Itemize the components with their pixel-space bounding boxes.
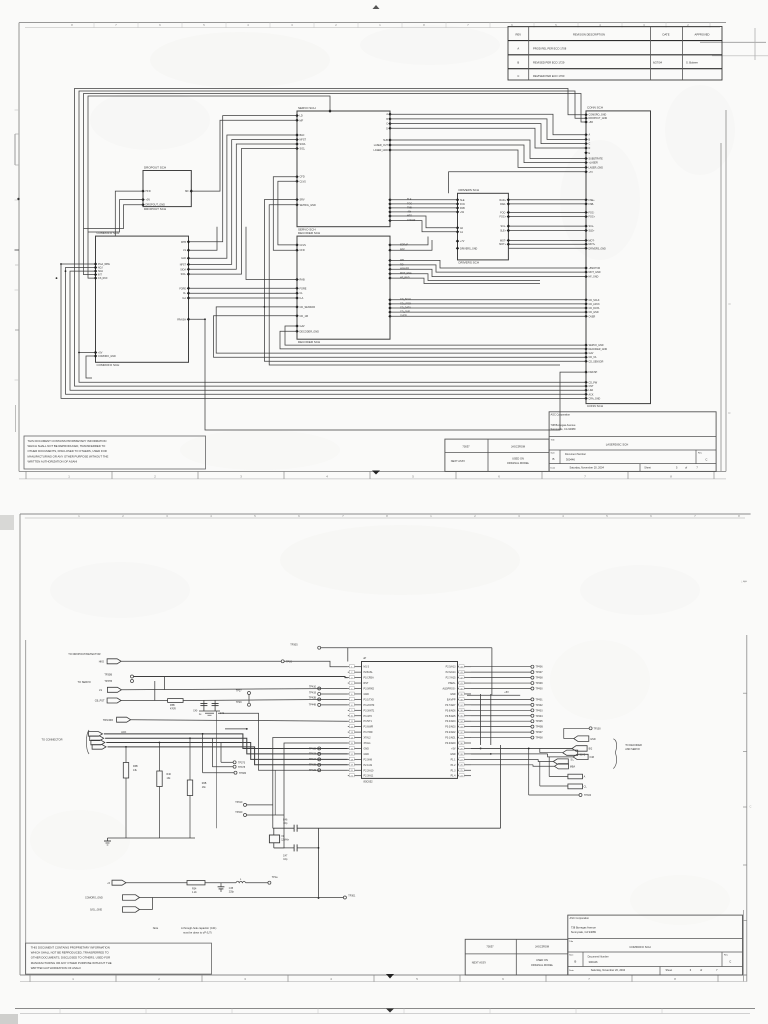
svg-text:LASER_GND: LASER_GND xyxy=(374,149,389,152)
svg-text:C: C xyxy=(750,805,752,809)
svg-text:THIS DOCUMENT CONTAINS PROPRIE: THIS DOCUMENT CONTAINS PROPRIETARY INFOR… xyxy=(28,439,107,443)
svg-text:DROPOUT_GND: DROPOUT_GND xyxy=(589,117,608,120)
svg-text:CS_RCF: CS_RCF xyxy=(98,277,108,280)
svg-text:TP40B: TP40B xyxy=(536,726,544,729)
svg-text:GAV: GAV xyxy=(300,325,305,328)
center marker bottom page 1 xyxy=(372,471,380,475)
wire XTAL2 net xyxy=(273,738,348,829)
svg-text:1u: 1u xyxy=(199,714,202,716)
svg-text:R40: R40 xyxy=(167,773,172,776)
svg-text:D: D xyxy=(589,147,591,150)
svg-text:+5V: +5V xyxy=(451,747,456,750)
svg-text:A through-hole capacitor (C41): A through-hole capacitor (C41) xyxy=(181,926,216,930)
wire HKD to uP xyxy=(121,661,348,666)
svg-text:4: 4 xyxy=(562,514,564,518)
sheet symbol SERVO SCH (U-servo) xyxy=(295,106,415,232)
svg-text:1.2k: 1.2k xyxy=(192,891,197,894)
test point TP305 xyxy=(290,643,320,649)
svg-text:3: 3 xyxy=(291,23,293,27)
svg-text:DECODER SCH: DECODER SCH xyxy=(298,340,320,344)
svg-text:GND: GND xyxy=(364,693,370,696)
svg-text:XTAL1: XTAL1 xyxy=(364,742,372,745)
svg-text:5: 5 xyxy=(606,514,608,518)
resistor R5B xyxy=(168,699,184,711)
svg-text:ORIGINAL MODEL: ORIGINAL MODEL xyxy=(507,461,530,465)
svg-text:3: 3 xyxy=(518,514,520,518)
svg-text:C: C xyxy=(386,123,388,126)
svg-text:FRA/SH: FRA/SH xyxy=(177,318,186,321)
svg-text:P1/CRSA: P1/CRSA xyxy=(364,677,375,680)
svg-text:FORE: FORE xyxy=(179,287,186,290)
scan artifact left edge page 1 xyxy=(14,134,16,165)
svg-text:MOT-: MOT- xyxy=(500,239,506,242)
connector flag LS xyxy=(99,687,121,692)
svg-text:CLVS: CLVS xyxy=(300,180,307,183)
test point TP44B xyxy=(309,703,348,706)
svg-text:GLD: GLD xyxy=(181,257,186,260)
svg-text:DROPOUT SCH: DROPOUT SCH xyxy=(144,207,166,211)
svg-text:P3.1/TXD: P3.1/TXD xyxy=(364,698,375,701)
svg-text:SUL-: SUL- xyxy=(589,225,595,228)
svg-text:2: 2 xyxy=(474,514,476,518)
sheet symbol DRIVERS SCH xyxy=(456,188,510,264)
svg-text:B: B xyxy=(574,959,576,963)
svg-text:CFD: CFD xyxy=(300,176,305,179)
svg-text:CD_VA: CD_VA xyxy=(589,356,597,359)
svg-text:TP403: TP403 xyxy=(536,709,544,712)
svg-text:TP30B: TP30B xyxy=(104,673,112,676)
test point TP410 xyxy=(309,686,321,691)
wire RAB xyxy=(246,227,297,280)
svg-text:TP408: TP408 xyxy=(536,737,544,740)
svg-text:SUL-: SUL- xyxy=(501,225,507,228)
svg-text:Sunnyvale, CA 94089: Sunnyvale, CA 94089 xyxy=(551,427,577,431)
svg-text:TP100: TP100 xyxy=(594,727,602,730)
wire LS line xyxy=(121,677,347,690)
svg-text:5: 5 xyxy=(254,514,256,518)
svg-text:FORE: FORE xyxy=(300,287,307,290)
svg-text:TP37B: TP37B xyxy=(104,680,112,683)
svg-text:APPROVED: APPROVED xyxy=(695,33,710,37)
svg-text:7: 7 xyxy=(467,23,469,27)
svg-text:PSEN-: PSEN- xyxy=(448,682,456,685)
svg-text:738 Borregas Avenue: 738 Borregas Avenue xyxy=(551,423,576,427)
svg-text:P1.2: P1.2 xyxy=(451,764,457,767)
resistor R34 xyxy=(126,881,205,895)
svg-text:MF: MF xyxy=(185,190,189,193)
sheet symbol DECODER SCH xyxy=(295,231,412,344)
svg-text:P3.5/T1: P3.5/T1 xyxy=(364,720,373,723)
svg-text:CD_SENSOR: CD_SENSOR xyxy=(589,360,604,363)
wire TP30B line to uP xyxy=(134,677,348,678)
svg-text:TP406: TP406 xyxy=(536,666,544,669)
svg-text:70037: 70037 xyxy=(462,444,470,448)
scan artifact lines right of rev table xyxy=(700,41,766,43)
svg-text:P3.3/INT1: P3.3/INT1 xyxy=(364,709,375,712)
svg-text:SICL: SICL xyxy=(300,148,306,151)
svg-text:SLE+: SLE+ xyxy=(500,230,507,233)
svg-text:COMORO_GND: COMORO_GND xyxy=(85,897,103,900)
svg-text:TP300: TP300 xyxy=(584,794,592,797)
svg-text:Saturday, November 20, 2004: Saturday, November 20, 2004 xyxy=(591,968,626,972)
svg-text:P2.3/A11: P2.3/A11 xyxy=(364,775,374,778)
revision table xyxy=(508,27,722,81)
svg-text:TP27: TP27 xyxy=(236,689,242,692)
test point TP300 xyxy=(528,748,592,797)
svg-text:8: 8 xyxy=(670,474,672,478)
svg-text:SERVO_GND: SERVO_GND xyxy=(589,344,604,347)
svg-text:FOC+: FOC+ xyxy=(500,216,507,219)
svg-text:OTHER DOCUMENTS, DISCLOSED TO: OTHER DOCUMENTS, DISCLOSED TO OTHERS, US… xyxy=(31,956,110,960)
svg-text:3: 3 xyxy=(244,977,246,981)
svg-text:CD_SCLK: CD_SCLK xyxy=(589,299,600,302)
svg-text:LASERDISC SCH: LASERDISC SCH xyxy=(606,442,629,446)
svg-text:TO SERVO: TO SERVO xyxy=(78,680,91,684)
svg-text:GND: GND xyxy=(450,753,456,756)
wire gnd loop to right side xyxy=(216,711,500,828)
svg-text:C47: C47 xyxy=(283,855,288,858)
svg-text:P0.3/AD3: P0.3/AD3 xyxy=(445,726,456,729)
svg-text:1: 1 xyxy=(78,514,80,518)
test points TP30B TP37B xyxy=(104,673,133,683)
svg-text:Title: Title xyxy=(569,940,574,943)
svg-text:P3.7/RD: P3.7/RD xyxy=(364,731,373,734)
svg-text:5: 5 xyxy=(416,977,418,981)
resistor RCL xyxy=(540,762,588,789)
svg-text:ADJ: ADJ xyxy=(98,267,103,270)
wire TP305 to uP pin 1 xyxy=(321,648,492,696)
net flag S1V2 xyxy=(540,748,586,756)
svg-text:OVER: OVER xyxy=(589,315,596,318)
svg-text:1: 1 xyxy=(68,474,70,478)
svg-text:FnB: FnB xyxy=(590,756,595,759)
sheet symbol DROPOUT SCH xyxy=(141,165,193,211)
svg-text:TP380: TP380 xyxy=(239,772,247,775)
svg-text:MTB: MTB xyxy=(181,241,186,244)
svg-text:P1.3: P1.3 xyxy=(451,769,457,772)
svg-text:TP378: TP378 xyxy=(238,766,246,769)
svg-text:MOT-: MOT- xyxy=(589,239,595,242)
svg-text:L: L xyxy=(240,879,242,881)
svg-text:CONN SCH: CONN SCH xyxy=(587,404,603,408)
brace TO DECODER AND SERVO xyxy=(613,739,642,769)
svg-text:CL: CL xyxy=(183,292,187,295)
svg-text:TP44B: TP44B xyxy=(309,704,317,707)
svg-text:8: 8 xyxy=(738,514,740,518)
svg-text:BI2: BI2 xyxy=(589,748,593,751)
svg-text:7: 7 xyxy=(342,514,344,518)
svg-text:LASER_OUT: LASER_OUT xyxy=(374,144,389,147)
svg-text:GND: GND xyxy=(364,753,370,756)
svg-text:DROPOUT_GND: DROPOUT_GND xyxy=(146,204,166,207)
svg-text:4: 4 xyxy=(210,514,212,518)
wires decoder SDRuP BRE xyxy=(390,237,432,251)
svg-text:TP419: TP419 xyxy=(309,691,317,694)
test points TP401-TP408 column 2 xyxy=(471,698,543,740)
wires DRIVERS right to CONN xyxy=(508,200,586,244)
svg-text:TP404: TP404 xyxy=(536,715,544,718)
resistor R4B xyxy=(187,738,206,838)
svg-text:P2.2/A10: P2.2/A10 xyxy=(364,769,375,772)
wires FORE CL ILA xyxy=(189,288,298,298)
svg-text:P0.2/AD2: P0.2/AD2 xyxy=(445,731,456,734)
svg-text:1: 1 xyxy=(430,514,432,518)
svg-text:5: 5 xyxy=(676,466,678,469)
svg-text:S.L: S.L xyxy=(571,760,575,762)
svg-text:SUBSTRATE: SUBSTRATE xyxy=(589,158,604,161)
inductor L1 xyxy=(205,879,268,883)
proprietary note page 1 xyxy=(24,436,206,469)
svg-text:COMROFO SCH: COMROFO SCH xyxy=(97,363,120,367)
wires servo right A-D to CONN xyxy=(390,114,586,148)
sheet symbol CONN SCH xyxy=(584,106,650,409)
svg-text:DROPOUT SCH: DROPOUT SCH xyxy=(144,165,166,169)
svg-text:NFST: NFST xyxy=(180,263,187,266)
wire +7V CONN to DRIVERS xyxy=(449,172,586,194)
svg-text:NFST: NFST xyxy=(300,139,307,142)
svg-text:SRV: SRV xyxy=(300,199,305,202)
svg-text:8: 8 xyxy=(674,977,676,981)
note text page 2 xyxy=(153,926,217,935)
capacitor C41 xyxy=(212,700,225,715)
svg-text:P3.6/WR: P3.6/WR xyxy=(364,726,374,729)
connector flag S/GL_GND xyxy=(90,907,140,913)
wire XTAL1 net xyxy=(274,743,348,848)
crystal X1 xyxy=(269,828,289,848)
svg-text:OTHER DOCUMENTS, DISCLOSED TO: OTHER DOCUMENTS, DISCLOSED TO OTHERS, US… xyxy=(28,449,107,453)
svg-text:ALE/PROG-: ALE/PROG- xyxy=(442,688,455,691)
resistor RA xyxy=(549,757,585,779)
svg-text:Rev: Rev xyxy=(724,954,729,956)
wires servo TLE group to DRIVERS xyxy=(390,200,458,212)
wire CB_PST line xyxy=(121,699,348,700)
svg-text:3: 3 xyxy=(240,474,242,478)
center marker bottom page 2 xyxy=(386,974,394,979)
svg-text:FNB: FNB xyxy=(460,207,465,210)
svg-text:CD_1M: CD_1M xyxy=(300,315,308,318)
svg-text:TP310: TP310 xyxy=(235,801,243,804)
svg-text:DRIVERS SCH: DRIVERS SCH xyxy=(459,188,480,192)
connector flags ACK group xyxy=(86,730,126,754)
svg-text:O: O xyxy=(729,302,731,306)
svg-text:Sunnyvale, CA 94089: Sunnyvale, CA 94089 xyxy=(571,930,597,934)
wires servo laser group to CONN xyxy=(390,140,586,167)
test points TP27 TP29 xyxy=(236,689,251,706)
junction dots page 1 xyxy=(56,263,266,353)
svg-text:C40: C40 xyxy=(193,710,198,712)
svg-text:TP1a: TP1a xyxy=(272,876,278,879)
svg-text:SLE+: SLE+ xyxy=(589,230,596,233)
svg-text:S. Bobeer: S. Bobeer xyxy=(686,61,698,65)
svg-text:FOC-: FOC- xyxy=(500,211,506,214)
svg-text:CONN SCH: CONN SCH xyxy=(587,106,603,110)
svg-text:MF: MF xyxy=(300,119,304,122)
net flag GND right xyxy=(564,736,596,742)
svg-text:R4B: R4B xyxy=(202,782,207,785)
svg-text:7: 7 xyxy=(584,474,586,478)
svg-text:P3.2/INT0: P3.2/INT0 xyxy=(364,704,375,707)
svg-text:EA/VPP: EA/VPP xyxy=(447,698,456,701)
wires decoder bottom to CONN group xyxy=(214,307,587,357)
svg-text:+5V: +5V xyxy=(504,691,509,694)
svg-text:TP410: TP410 xyxy=(309,686,317,689)
test points TP310 TP320 xyxy=(235,801,284,817)
svg-text:C: C xyxy=(589,143,591,146)
svg-text:TP405: TP405 xyxy=(536,720,544,723)
svg-text:DRIVERS_GND: DRIVERS_GND xyxy=(589,247,607,250)
wire gnd vertical right of crystal xyxy=(318,828,320,899)
svg-text:XTAL2: XTAL2 xyxy=(364,737,372,740)
svg-text:TP407: TP407 xyxy=(536,671,544,674)
svg-text:DATE: DATE xyxy=(663,33,670,37)
svg-text:IN BASL: IN BASL xyxy=(364,671,374,674)
scan artifact left of page 2 xyxy=(0,515,14,530)
svg-text:COMROFO SCH: COMROFO SCH xyxy=(97,231,120,235)
svg-text:TP407: TP407 xyxy=(536,731,544,734)
pin on servo top edge xyxy=(328,109,331,112)
svg-text:LS: LS xyxy=(99,689,102,692)
svg-text:CD_PW: CD_PW xyxy=(589,381,598,384)
svg-text:REVISION DESCRIPTION: REVISION DESCRIPTION xyxy=(573,33,605,37)
svg-text:2: 2 xyxy=(335,23,337,27)
svg-text:P1.1: P1.1 xyxy=(451,758,457,761)
svg-text:WRITTEN AUTHORIZATION OF ASAHI: WRITTEN AUTHORIZATION OF ASAHI xyxy=(31,966,81,970)
svg-text:13k: 13k xyxy=(167,777,172,780)
svg-text:CRA_GND: CRA_GND xyxy=(589,397,601,400)
svg-text:SERVO SCH: SERVO SCH xyxy=(298,106,316,110)
wire bus outer loop xyxy=(61,89,586,399)
svg-text:B: B xyxy=(386,118,388,121)
page 3 top edge xyxy=(0,1009,755,1024)
svg-text:6/27/04: 6/27/04 xyxy=(653,61,662,65)
test points TP373 TP378 TP380 xyxy=(203,734,247,775)
capacitor C38 xyxy=(218,883,235,894)
svg-text:DRIVERS_GND: DRIVERS_GND xyxy=(460,247,478,250)
svg-text:WHICH SHALL NOT BE REPRODUCED,: WHICH SHALL NOT BE REPRODUCED, TRANSFERR… xyxy=(28,444,107,448)
svg-text:TP305: TP305 xyxy=(290,643,298,646)
svg-text:SICL: SICL xyxy=(181,273,187,276)
svg-text:Size: Size xyxy=(551,453,556,455)
svg-text:R5B: R5B xyxy=(170,704,175,707)
svg-text:B: B xyxy=(553,457,555,461)
svg-text:10p: 10p xyxy=(283,822,288,825)
wires BLD NFST SIOA SICL (comrofo - servo) xyxy=(189,135,298,274)
svg-text:Size: Size xyxy=(569,954,574,956)
wire MF dropout - servo xyxy=(191,120,297,191)
test point TP301 xyxy=(343,895,356,899)
svg-text:CLVS: CLVS xyxy=(300,244,307,247)
svg-text:ILA: ILA xyxy=(182,297,186,300)
svg-text:CD_SENSOR: CD_SENSOR xyxy=(300,306,316,309)
svg-text:of: of xyxy=(685,466,687,469)
svg-text:HFD: HFD xyxy=(146,190,151,193)
svg-text:NEXT ASSY: NEXT ASSY xyxy=(472,960,487,964)
svg-text:THIS DOCUMENT CONTAINS PROPRIE: THIS DOCUMENT CONTAINS PROPRIETARY INFOR… xyxy=(31,946,110,950)
svg-text:CB_PST: CB_PST xyxy=(95,700,105,703)
svg-text:1: 1 xyxy=(72,977,74,981)
resistor R3B xyxy=(123,747,138,838)
wires CD group decoder to CONN xyxy=(390,300,586,317)
wire FRA/SH long xyxy=(189,319,587,430)
svg-text:5: 5 xyxy=(203,23,205,27)
svg-text:HF_GND: HF_GND xyxy=(589,276,599,279)
sheet symbol COMROFO SCH xyxy=(94,231,190,367)
svg-text:CD_DATA: CD_DATA xyxy=(589,307,600,310)
svg-text:12MHz: 12MHz xyxy=(281,839,289,842)
ground for C40 C41 xyxy=(199,711,220,715)
svg-text:6: 6 xyxy=(690,969,692,972)
test points TP422-TP426 xyxy=(309,747,321,772)
svg-text:B: B xyxy=(589,138,591,141)
svg-text:AND SERVO: AND SERVO xyxy=(625,748,640,751)
svg-text:A: A xyxy=(517,47,519,51)
svg-text:LS: LS xyxy=(183,249,186,252)
svg-text:REV: REV xyxy=(516,33,522,37)
svg-text:10p: 10p xyxy=(283,858,288,861)
svg-text:PROD REL PER ECO 1708: PROD REL PER ECO 1708 xyxy=(533,47,567,51)
net flag BI2 xyxy=(471,746,593,752)
capacitor C46 xyxy=(273,818,319,831)
svg-text:GND: GND xyxy=(364,747,370,750)
svg-text:6: 6 xyxy=(298,514,300,518)
svg-text:SUB: SUB xyxy=(383,139,388,142)
svg-text:TP408: TP408 xyxy=(536,677,544,680)
svg-text:( A|: ( A| xyxy=(741,580,746,584)
svg-text:RAB: RAB xyxy=(300,279,305,282)
svg-text:ASC Corporation: ASC Corporation xyxy=(551,413,571,417)
svg-text:C: C xyxy=(517,74,519,78)
net flag MBA xyxy=(471,764,575,769)
svg-text:DRIVERS SCH: DRIVERS SCH xyxy=(459,261,480,265)
svg-text:5: 5 xyxy=(412,474,414,478)
svg-text:FOC: FOC xyxy=(460,203,465,206)
svg-text:P0.4/AD4: P0.4/AD4 xyxy=(445,720,456,723)
svg-text:80C652: 80C652 xyxy=(364,779,374,783)
svg-text:LASER_GND: LASER_GND xyxy=(589,166,604,169)
svg-text:ILA: ILA xyxy=(300,297,304,300)
wire row 21 to uP xyxy=(218,713,348,770)
svg-text:TRN/DIR: TRN/DIR xyxy=(103,719,113,722)
connector flag COMORO_GND xyxy=(85,895,140,901)
svg-text:A1: A1 xyxy=(460,231,464,234)
resistor R40 xyxy=(157,743,172,839)
wire LS xyxy=(189,227,218,250)
svg-text:uP: uP xyxy=(363,656,366,660)
svg-text:738 Borregas Avenue: 738 Borregas Avenue xyxy=(571,926,596,930)
wires DROPOUT left pins xyxy=(84,191,144,236)
svg-text:+7V: +7V xyxy=(460,240,465,243)
svg-text:DECODER_GND: DECODER_GND xyxy=(300,330,320,333)
svg-text:GND: GND xyxy=(590,738,596,741)
svg-text:8: 8 xyxy=(386,514,388,518)
svg-text:4: 4 xyxy=(326,474,328,478)
svg-text:USED ON: USED ON xyxy=(512,457,524,461)
microcontroller U7 80C652 xyxy=(348,656,471,783)
capacitor C40 xyxy=(193,700,207,716)
svg-text:C: C xyxy=(705,457,707,461)
svg-text:Title: Title xyxy=(551,439,556,442)
svg-text:TO CONNECTOR: TO CONNECTOR xyxy=(42,738,63,742)
svg-text:Document Number: Document Number xyxy=(588,956,609,959)
svg-text:4: 4 xyxy=(247,23,249,27)
svg-text:Document Number: Document Number xyxy=(565,453,586,456)
svg-text:COMORO_GND: COMORO_GND xyxy=(98,355,116,358)
svg-text:C46: C46 xyxy=(283,818,288,821)
svg-text:P2.5/A13: P2.5/A13 xyxy=(446,666,457,669)
svg-text:P1.4: P1.4 xyxy=(451,775,457,778)
svg-text:TP26: TP26 xyxy=(286,660,293,663)
svg-text:220p: 220p xyxy=(229,891,235,893)
